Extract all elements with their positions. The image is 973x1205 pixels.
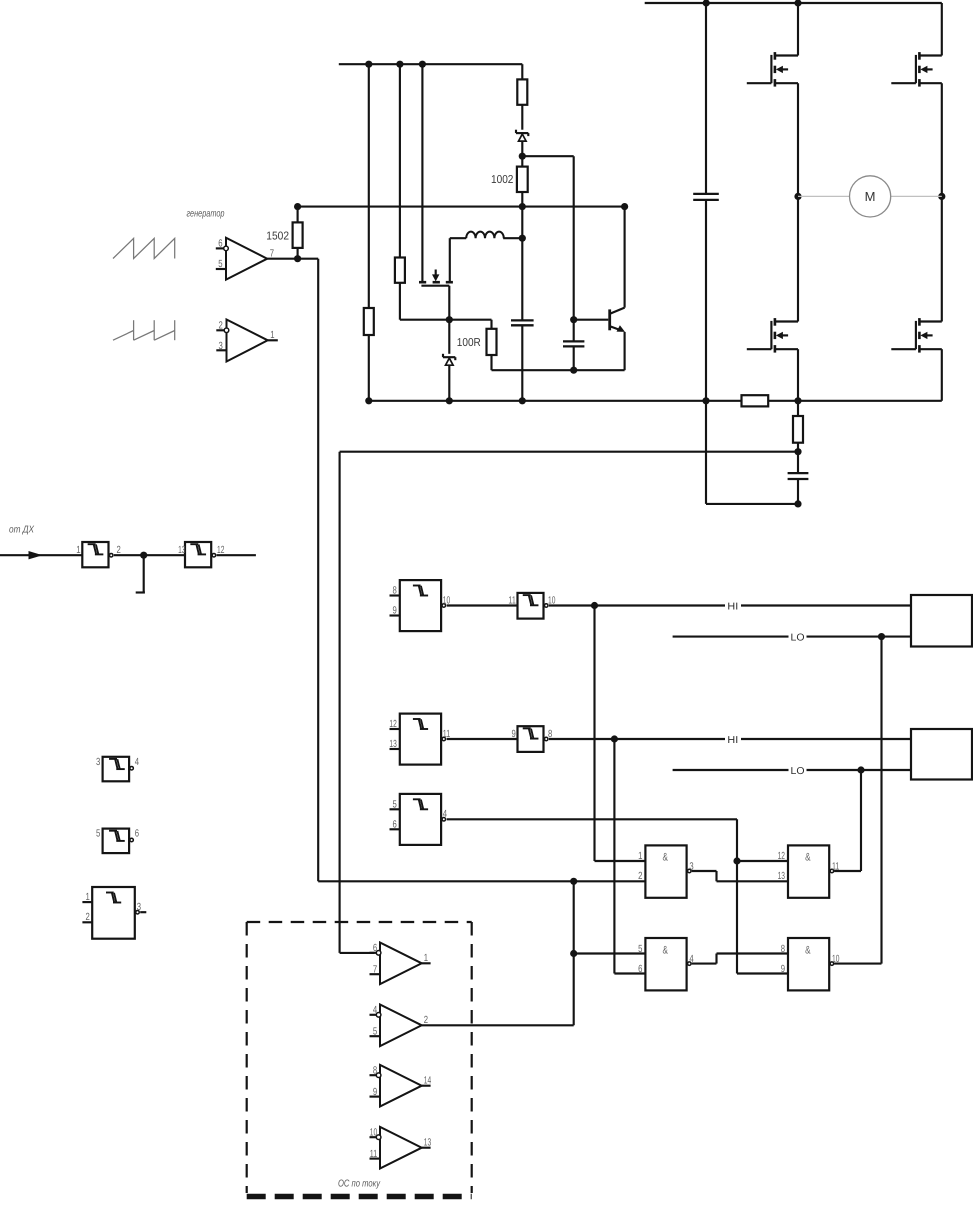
dashed box ОС по току	[247, 922, 472, 1197]
wire row2 to DD3.2 pin6	[614, 739, 645, 974]
svg-text:9: 9	[373, 1087, 377, 1098]
wire aux top rail	[339, 61, 523, 68]
capacitor C5 (sense filter)	[788, 452, 809, 504]
svg-text:HI: HI	[727, 735, 738, 746]
svg-text:2: 2	[219, 321, 223, 332]
svg-text:от ДХ: от ДХ	[9, 525, 34, 536]
svg-text:&: &	[805, 944, 811, 956]
wire motor connections	[798, 195, 942, 197]
svg-text:ОС по току: ОС по току	[338, 1178, 381, 1189]
diode VD2 (zener)	[443, 320, 455, 401]
wire VT3 source to bottom rail	[797, 349, 799, 401]
svg-text:12: 12	[389, 719, 397, 730]
svg-text:4: 4	[373, 1005, 377, 1016]
svg-text:8: 8	[393, 586, 397, 597]
svg-text:1: 1	[270, 330, 274, 341]
svg-text:13: 13	[424, 1138, 432, 1149]
AND gate DD3.1	[638, 845, 694, 897]
AND gate DD3.4	[778, 845, 840, 897]
wire HI line 2	[549, 733, 911, 746]
svg-text:LO: LO	[791, 766, 805, 777]
svg-text:7: 7	[373, 965, 377, 976]
resistor R8 (sense divider)	[793, 401, 803, 452]
svg-text:1: 1	[424, 953, 428, 964]
wire x737 vertical	[733, 819, 788, 973]
resistor R6 1502 label	[266, 230, 289, 242]
wire sense to comparator	[340, 952, 375, 954]
op-amp DA1.1	[216, 320, 277, 362]
capacitor C2 (aux output)	[511, 320, 534, 400]
node BJT base tap	[570, 316, 577, 323]
capacitor C3	[563, 341, 584, 370]
node mid rail left end	[294, 203, 301, 210]
wire DD2.4 output to x737	[447, 818, 737, 820]
transistor VT1 (bridge high-side left MOSFET)	[747, 3, 798, 87]
waveform sawtooth 2	[113, 320, 175, 340]
node C3 bottom junction	[570, 367, 577, 374]
wire x706 lower segment	[705, 401, 707, 504]
resistor R2	[395, 64, 405, 320]
svg-text:6: 6	[373, 943, 377, 954]
capacitor C1 (bus filter)	[693, 3, 719, 401]
wire DD2.2 to DD1.4	[447, 604, 518, 606]
wire x522 mid segment	[521, 207, 523, 320]
motor M1	[850, 176, 891, 217]
op-amp DA1.2 (generator)	[216, 238, 274, 280]
svg-text:2: 2	[86, 912, 90, 923]
svg-text:3: 3	[219, 341, 223, 352]
label от ДХ	[9, 525, 34, 536]
schmitt trigger DD1.6	[178, 542, 224, 567]
svg-text:1002: 1002	[491, 174, 513, 186]
svg-text:генератор: генератор	[187, 209, 225, 220]
wire generator PWM line	[318, 878, 645, 885]
wire top supply rail	[645, 0, 942, 7]
svg-text:13: 13	[389, 739, 397, 750]
comparator DA2.3 (spare)	[370, 1065, 432, 1107]
node zener2 junction	[446, 316, 453, 323]
wire R2 bottom to zener node	[400, 319, 492, 321]
svg-text:13: 13	[178, 545, 186, 556]
transistor VT4 (bridge low-side right MOSFET)	[891, 83, 942, 352]
resistor R4	[517, 156, 528, 206]
wire mid rail	[298, 206, 625, 208]
svg-text:6: 6	[393, 819, 397, 830]
svg-text:&: &	[805, 852, 811, 864]
node sense junction	[794, 448, 801, 455]
schmitt gate DD2.3	[389, 714, 450, 765]
svg-text:&: &	[663, 944, 669, 956]
wire VT4 source to bottom rail	[941, 349, 943, 401]
diode VD1 (zener)	[516, 105, 528, 156]
schmitt trigger DD1.2 (spare)	[96, 757, 139, 782]
svg-text:11: 11	[370, 1149, 378, 1160]
svg-text:9: 9	[512, 729, 516, 740]
svg-text:11: 11	[508, 595, 516, 606]
wire bottom rail right part	[768, 400, 942, 402]
wire DD3.3 out to LO1	[834, 637, 881, 964]
svg-text:3: 3	[137, 902, 141, 913]
transistor VT2 (bridge high-side right MOSFET)	[891, 3, 942, 87]
svg-text:HI: HI	[727, 601, 738, 612]
wire LO line 2	[673, 764, 911, 777]
svg-text:4: 4	[443, 809, 447, 820]
wire DD3.1 out to DD3.4 pin13	[692, 871, 788, 881]
comparator DA2.4 (spare)	[370, 1127, 432, 1169]
wire bottom rail left part	[369, 400, 742, 402]
wire VT5 drain feed	[421, 64, 423, 281]
node mid rail junctions	[519, 203, 629, 210]
wire hall input	[0, 551, 82, 559]
wire emitter return line	[492, 369, 625, 371]
wire DD2.3 to DD1.5	[447, 738, 518, 740]
node VD1 anode junction	[519, 153, 526, 160]
driver block A1	[911, 595, 972, 647]
resistor R6	[293, 207, 303, 259]
wire DD3.4 out to LO2	[834, 770, 861, 871]
wire DA2.1 output	[422, 1024, 574, 1026]
svg-text:5: 5	[393, 799, 397, 810]
driver block A2	[911, 729, 972, 780]
svg-text:8: 8	[373, 1065, 377, 1076]
wire row1 to DD3.1 pin1	[595, 606, 646, 862]
transistor VT6 (BJT)	[574, 207, 625, 371]
wire DD3.2 out to DD3.3 pin8	[692, 954, 788, 964]
resistor R4 1002 label	[491, 174, 513, 186]
svg-text:9: 9	[393, 606, 397, 617]
wire sense line down	[340, 452, 798, 953]
svg-text:10: 10	[370, 1127, 378, 1138]
svg-text:6: 6	[135, 829, 139, 840]
resistor R3	[517, 64, 527, 105]
wire LO line 1	[673, 631, 911, 644]
wire C5 bottom to x706	[706, 503, 798, 505]
svg-text:M: M	[865, 189, 876, 204]
svg-text:1502: 1502	[266, 230, 289, 242]
schmitt gate DD2.2	[390, 580, 451, 631]
svg-text:4: 4	[135, 757, 139, 768]
schmitt trigger DD1.5	[512, 726, 553, 752]
schmitt trigger DD1.3 (spare)	[96, 829, 139, 854]
label генератор	[187, 209, 225, 220]
wire DD1.1 to DD1.6	[114, 552, 185, 559]
transistor VT5 (aux switch MOSFET)	[419, 270, 453, 320]
AND gate DD3.3	[781, 938, 840, 990]
wire PWM to DD3.2 pin5	[570, 881, 645, 1025]
svg-text:6: 6	[218, 239, 222, 250]
wire DD1.6 output	[217, 554, 256, 556]
svg-text:1: 1	[76, 545, 80, 556]
svg-text:1: 1	[86, 892, 90, 903]
resistor R5 100R label	[457, 337, 481, 349]
comparator DA2.2	[370, 942, 431, 984]
wire HI line 1	[549, 600, 911, 613]
node right motor terminal	[938, 193, 945, 200]
svg-text:5: 5	[373, 1027, 377, 1038]
schmitt gate DD2.4	[390, 794, 448, 845]
label ОС по току	[338, 1178, 381, 1189]
wire zener node branch right	[522, 156, 573, 341]
waveform sawtooth 1	[113, 238, 175, 258]
schmitt trigger DD2.1 (spare)	[82, 887, 146, 939]
wire DA1.2 output	[267, 255, 318, 881]
wire stub down	[136, 555, 145, 592]
node inductor output	[519, 235, 526, 242]
svg-text:5: 5	[218, 259, 222, 270]
node left motor terminal	[794, 193, 801, 200]
comparator DA2.1	[370, 1004, 429, 1046]
resistor R5	[487, 320, 497, 371]
svg-text:100R: 100R	[457, 337, 481, 349]
transistor VT3 (bridge low-side left MOSFET)	[747, 83, 798, 352]
svg-text:&: &	[663, 852, 669, 864]
node bottom rail junctions	[365, 397, 801, 404]
inductor L1	[450, 232, 523, 283]
svg-text:5: 5	[96, 829, 100, 840]
svg-text:14: 14	[424, 1076, 432, 1087]
schmitt trigger DD1.1	[76, 542, 121, 567]
svg-text:3: 3	[96, 757, 100, 768]
AND gate DD3.2	[638, 938, 694, 990]
resistor R1	[364, 64, 374, 401]
node C5 bottom junction	[794, 500, 801, 507]
resistor R7 (shunt, horizontal)	[742, 395, 769, 406]
svg-text:LO: LO	[791, 632, 805, 643]
schmitt trigger DD1.4	[508, 593, 555, 619]
